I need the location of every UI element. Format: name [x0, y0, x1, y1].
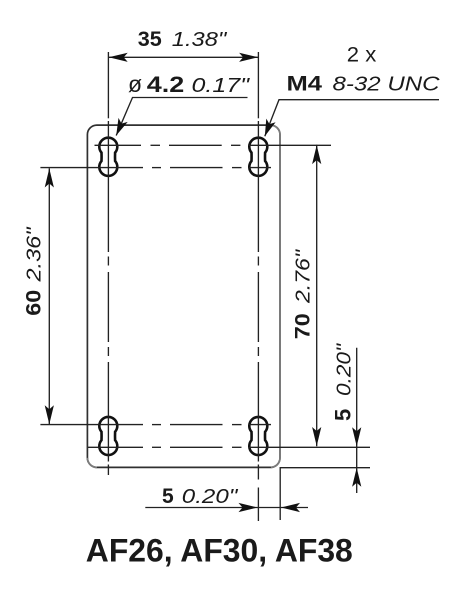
dimension line 35: [108, 56, 258, 58]
svg-text:0.20": 0.20": [333, 343, 355, 396]
svg-text:35: 35: [138, 28, 162, 51]
slot top-left: [99, 138, 117, 176]
plate bottom-left corner (lighter): [87, 458, 97, 468]
arrow 60 bottom: [45, 405, 54, 424]
arrow 70 top: [312, 145, 321, 164]
centerline H4 bottom lower-lobe (70 and 5 bottom ref, dash-dot): [88, 446, 370, 448]
centerline H2 top lower-lobe (60 top ref, dash-dot): [40, 167, 271, 169]
svg-text:4.2: 4.2: [147, 72, 185, 97]
leader line for hole dia 4.2: [116, 98, 247, 136]
svg-text:M4: M4: [287, 73, 323, 96]
centerline V2 right column (35 ref above, 5 ref below, dash-dot): [257, 52, 259, 521]
arrow 35 right: [239, 53, 258, 62]
plate bottom edge extension right (5 ref): [280, 467, 370, 469]
arrow leader M4: [265, 119, 276, 137]
centerline H1 top upper-lobe (dash-dot): [95, 144, 332, 146]
slot bottom-left: [99, 417, 117, 455]
slot bottom-right: [249, 417, 267, 455]
arrow 5h left-pointing (tip at plate edge line): [281, 503, 300, 512]
arrow 70 bottom: [312, 427, 321, 446]
arrow 60 top: [45, 169, 54, 188]
svg-text:5: 5: [330, 409, 355, 421]
dimension line 5 horizontal bottom: [145, 507, 308, 509]
arrow 35 left: [109, 53, 128, 62]
plate outline: [87, 125, 280, 467]
svg-text:AF26, AF30, AF38: AF26, AF30, AF38: [86, 532, 353, 569]
arrow leader 4.2: [116, 118, 128, 136]
svg-text:2.76": 2.76": [293, 249, 315, 304]
svg-text:8-32 UNC: 8-32 UNC: [333, 74, 441, 96]
svg-text:60: 60: [23, 290, 46, 316]
svg-text:2 x: 2 x: [347, 44, 377, 67]
centerline V1 left column (35 ref above, dash-dot): [107, 52, 109, 475]
svg-text:70: 70: [292, 313, 315, 339]
centerline H3 bottom upper-lobe (60 bottom ref, dash-dot): [40, 424, 271, 426]
svg-text:0.20": 0.20": [182, 486, 239, 508]
leader line for M4 tap: [265, 100, 439, 137]
svg-text:5: 5: [162, 485, 174, 508]
arrow 5v down (tip on lobe line): [352, 427, 361, 446]
svg-text:0.17": 0.17": [192, 75, 251, 97]
plate right edge (lighter): [271, 125, 280, 467]
dimension line 5 vertical: [356, 348, 358, 493]
slot top-right: [249, 138, 267, 176]
svg-text:2.36": 2.36": [24, 226, 46, 282]
dimension line 70: [316, 145, 318, 447]
arrow 5v up (tip on bottom edge line): [352, 468, 361, 487]
svg-text:ø: ø: [128, 71, 142, 97]
plate right edge extension below (5 ref): [279, 467, 281, 520]
svg-text:1.38": 1.38": [172, 29, 228, 51]
arrow 5h right-pointing (tip at slot centerline): [239, 503, 258, 512]
dimension line 60: [48, 168, 50, 424]
